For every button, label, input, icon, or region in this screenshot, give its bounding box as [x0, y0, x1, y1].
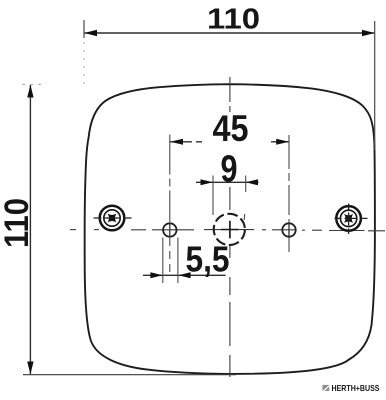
9 right arrow (outside, pointing left): [246, 179, 258, 185]
5,5 right arrow (pointing left at 178.3): [178, 272, 190, 278]
horizontal centerline: [70, 230, 385, 231]
45 right arrow: [276, 139, 289, 145]
9 left arrow (outside, pointing right): [201, 179, 213, 185]
top dim right arrow: [362, 30, 375, 36]
left hole circle: [163, 223, 176, 236]
dimension 45 line: [170, 141, 203, 143]
left dim bottom extension line: [23, 374, 236, 376]
45 right extension/centerline of right hole: [288, 135, 290, 252]
right screw: [335, 204, 368, 235]
svg-text:HERTH+BUSS: HERTH+BUSS: [332, 384, 380, 393]
lamp outline: [85, 84, 375, 374]
left dim top extension line: [22, 83, 46, 85]
svg-text:110: 110: [0, 198, 36, 248]
5,5 left arrow (pointing right at 162.8): [150, 272, 162, 278]
45 left arrow: [170, 139, 183, 145]
left dimension line 110: [29, 85, 31, 374]
dimension 5,5 line: [143, 274, 226, 276]
bulb hole circle (dashed): [214, 214, 245, 245]
svg-text:110: 110: [207, 4, 260, 36]
right hole circle: [282, 223, 295, 236]
dimension 9 line: [196, 181, 259, 183]
5,5 left extension line (hole left edge): [162, 238, 164, 284]
5,5 right extension line (hole right edge): [177, 238, 179, 284]
svg-text:9: 9: [221, 149, 238, 191]
left hole crosshair vertical: [169, 223, 171, 237]
left screw: [94, 206, 133, 231]
top dim left arrow: [84, 30, 97, 36]
45 left extension/centerline of left hole: [169, 135, 171, 223]
bulb hole crosshair vertical: [229, 221, 231, 239]
top dim left extension line: [83, 20, 85, 38]
9 right extension line: [245, 176, 247, 193]
svg-text:45: 45: [213, 108, 249, 149]
top dimension line 110: [84, 32, 374, 34]
right hole crosshair vertical: [288, 223, 290, 237]
vertical centerline: [229, 77, 231, 377]
left dim top arrow: [27, 85, 33, 98]
9 left extension line: [212, 176, 214, 216]
left dim bottom arrow: [27, 362, 33, 375]
top dim right extension line: [374, 21, 376, 150]
herth+buss logo icon: [323, 385, 330, 391]
